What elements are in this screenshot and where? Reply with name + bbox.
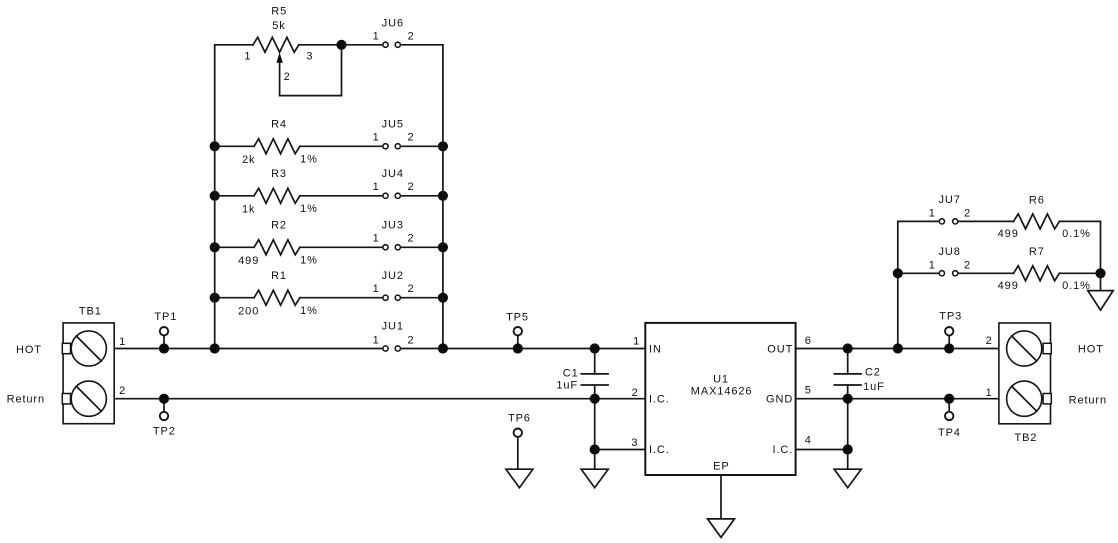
- svg-text:5k: 5k: [272, 20, 285, 32]
- svg-text:1: 1: [929, 260, 936, 272]
- svg-text:I.C.: I.C.: [772, 444, 793, 456]
- svg-text:1%: 1%: [300, 154, 318, 166]
- svg-text:TB2: TB2: [1014, 432, 1037, 444]
- svg-text:1: 1: [373, 334, 380, 346]
- svg-text:1: 1: [373, 233, 380, 245]
- svg-text:R1: R1: [271, 270, 287, 282]
- svg-text:1: 1: [244, 50, 251, 62]
- svg-text:I.C.: I.C.: [649, 394, 670, 406]
- svg-text:2: 2: [284, 71, 291, 83]
- svg-text:2k: 2k: [242, 154, 255, 166]
- svg-text:1: 1: [986, 387, 993, 399]
- svg-text:JU2: JU2: [382, 270, 404, 282]
- svg-text:JU1: JU1: [382, 321, 404, 333]
- svg-text:R5: R5: [271, 6, 287, 18]
- svg-text:1%: 1%: [300, 255, 318, 267]
- svg-text:TP2: TP2: [153, 426, 176, 438]
- svg-text:5: 5: [805, 385, 812, 397]
- svg-text:JU8: JU8: [938, 246, 960, 258]
- svg-text:TB1: TB1: [79, 306, 102, 318]
- svg-text:U1: U1: [713, 373, 729, 385]
- svg-text:C2: C2: [865, 366, 881, 378]
- svg-text:2: 2: [632, 387, 639, 399]
- svg-text:R4: R4: [271, 119, 287, 131]
- svg-text:1k: 1k: [242, 204, 255, 216]
- svg-text:R6: R6: [1029, 194, 1045, 206]
- svg-text:TP5: TP5: [506, 312, 529, 324]
- svg-text:2: 2: [964, 260, 971, 272]
- svg-text:0.1%: 0.1%: [1062, 228, 1091, 240]
- svg-text:TP1: TP1: [154, 311, 177, 323]
- svg-text:2: 2: [407, 233, 414, 245]
- svg-text:1: 1: [119, 336, 126, 348]
- svg-text:499: 499: [998, 280, 1019, 292]
- svg-text:GND: GND: [766, 394, 793, 406]
- svg-text:HOT: HOT: [16, 344, 42, 356]
- svg-text:2: 2: [407, 132, 414, 144]
- svg-text:JU3: JU3: [382, 220, 404, 232]
- svg-text:R3: R3: [271, 168, 287, 180]
- svg-text:1: 1: [373, 132, 380, 144]
- svg-text:R2: R2: [271, 220, 287, 232]
- svg-text:MAX14626: MAX14626: [691, 386, 753, 398]
- svg-text:I.C.: I.C.: [649, 444, 670, 456]
- svg-text:499: 499: [998, 228, 1019, 240]
- svg-text:1: 1: [633, 336, 640, 348]
- svg-text:2: 2: [407, 283, 414, 295]
- svg-text:1%: 1%: [300, 305, 318, 317]
- svg-text:1uF: 1uF: [556, 380, 578, 392]
- svg-text:TP6: TP6: [508, 412, 531, 424]
- svg-text:JU4: JU4: [382, 168, 404, 180]
- svg-text:Return: Return: [7, 393, 45, 405]
- svg-text:2: 2: [119, 385, 126, 397]
- svg-text:1: 1: [373, 283, 380, 295]
- svg-text:EP: EP: [713, 461, 729, 473]
- svg-text:1: 1: [373, 181, 380, 193]
- svg-text:2: 2: [408, 31, 415, 43]
- svg-text:1uF: 1uF: [863, 381, 885, 393]
- svg-text:OUT: OUT: [767, 344, 793, 356]
- svg-text:3: 3: [631, 437, 638, 449]
- svg-text:200: 200: [238, 306, 259, 318]
- svg-text:1%: 1%: [300, 203, 318, 215]
- svg-text:TP4: TP4: [938, 427, 961, 439]
- svg-text:3: 3: [306, 51, 313, 63]
- svg-text:499: 499: [238, 255, 259, 267]
- svg-text:TP3: TP3: [939, 311, 962, 323]
- svg-text:2: 2: [964, 208, 971, 220]
- svg-text:1: 1: [373, 31, 380, 43]
- svg-text:2: 2: [407, 181, 414, 193]
- svg-text:HOT: HOT: [1078, 344, 1104, 356]
- svg-text:JU6: JU6: [382, 17, 404, 29]
- svg-text:1: 1: [929, 208, 936, 220]
- svg-text:2: 2: [986, 335, 993, 347]
- svg-text:JU7: JU7: [938, 194, 960, 206]
- svg-text:Return: Return: [1069, 395, 1107, 407]
- svg-text:2: 2: [407, 334, 414, 346]
- svg-text:IN: IN: [649, 344, 662, 356]
- svg-text:JU5: JU5: [382, 119, 404, 131]
- svg-text:C1: C1: [563, 368, 579, 380]
- svg-text:6: 6: [805, 335, 812, 347]
- svg-text:4: 4: [805, 434, 812, 446]
- svg-text:R7: R7: [1029, 246, 1045, 258]
